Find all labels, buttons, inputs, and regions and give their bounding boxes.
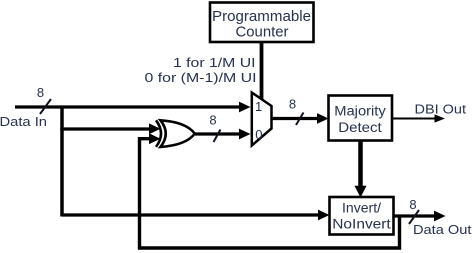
bus width 8 slash (XOR out)	[214, 130, 221, 143]
mux M1	[252, 93, 272, 146]
svg-text:Data Out: Data Out	[413, 222, 472, 237]
svg-text:Invert/: Invert/	[342, 200, 381, 216]
svg-text:1 for 1/M UI: 1 for 1/M UI	[173, 55, 256, 70]
wire branch to XOR top input	[60, 123, 160, 134]
wire Data Out bus	[394, 211, 446, 222]
bus width 8 slash (Data Out)	[409, 210, 419, 224]
wire select: counter to mux	[260, 41, 264, 101]
svg-text:DBI Out: DBI Out	[415, 102, 467, 117]
gate XOR1	[156, 120, 195, 147]
wire feedback: Data Out node to XOR bottom input	[140, 133, 400, 248]
svg-text:1: 1	[255, 99, 262, 114]
wire Majority Detect to Invert/NoInvert	[355, 140, 367, 198]
svg-text:Majority: Majority	[334, 103, 386, 119]
block U3 Invert/NoInvert	[330, 197, 394, 235]
svg-text:Data In: Data In	[0, 114, 47, 129]
wire Data In bus	[15, 102, 251, 113]
wire DBI Out	[392, 114, 445, 122]
svg-text:8: 8	[409, 197, 416, 212]
block U1 Programmable Counter	[210, 3, 314, 43]
bus width 8 slash (mux out)	[296, 113, 304, 126]
svg-text:0 for (M-1)/M UI: 0 for (M-1)/M UI	[145, 70, 257, 85]
svg-text:8: 8	[209, 113, 216, 128]
svg-text:8: 8	[37, 85, 44, 100]
svg-text:Programmable: Programmable	[212, 9, 311, 25]
block U2 Majority Detect	[329, 96, 393, 141]
svg-text:Counter: Counter	[236, 25, 289, 41]
wire mux output bus	[271, 113, 329, 124]
svg-text:0: 0	[255, 127, 262, 142]
bus width 8 slash (Data In)	[40, 99, 51, 114]
svg-text:Detect: Detect	[338, 119, 382, 135]
svg-text:NoInvert: NoInvert	[332, 216, 391, 232]
svg-text:8: 8	[289, 97, 296, 112]
wire to Invert/NoInvert input	[62, 210, 330, 221]
wire XOR output bus	[193, 129, 251, 140]
wire junction drop at x=62	[60, 106, 64, 217]
